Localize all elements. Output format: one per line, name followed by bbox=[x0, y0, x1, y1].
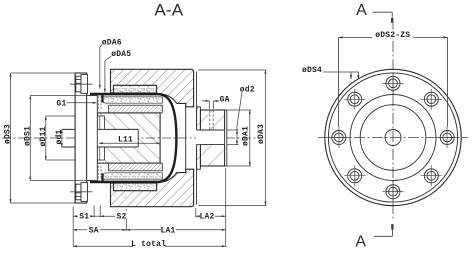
svg-text:øDS4: øDS4 bbox=[302, 66, 322, 75]
svg-text:A: A bbox=[355, 233, 366, 250]
svg-text:øDA5: øDA5 bbox=[111, 50, 131, 59]
svg-text:øDA3: øDA3 bbox=[257, 124, 266, 144]
svg-text:L total: L total bbox=[131, 240, 166, 249]
svg-text:øDS1: øDS1 bbox=[24, 126, 33, 146]
svg-text:øDS2-ZS: øDS2-ZS bbox=[375, 31, 410, 40]
svg-text:øDA1: øDA1 bbox=[242, 126, 251, 146]
svg-text:SA: SA bbox=[89, 226, 99, 235]
svg-text:øD11: øD11 bbox=[39, 126, 48, 146]
svg-text:S2: S2 bbox=[116, 213, 126, 222]
svg-text:G1: G1 bbox=[57, 100, 67, 109]
svg-text:LA2: LA2 bbox=[199, 213, 214, 222]
svg-text:GA: GA bbox=[220, 95, 230, 104]
svg-text:ød2: ød2 bbox=[240, 85, 255, 94]
svg-text:øDS3: øDS3 bbox=[4, 124, 13, 144]
svg-text:A: A bbox=[356, 2, 367, 19]
svg-text:LA1: LA1 bbox=[160, 226, 175, 235]
svg-text:L11: L11 bbox=[118, 136, 133, 145]
svg-text:A-A: A-A bbox=[154, 1, 183, 20]
svg-text:øDA6: øDA6 bbox=[102, 38, 122, 47]
svg-text:S1: S1 bbox=[79, 213, 89, 222]
svg-text:ød1: ød1 bbox=[55, 129, 64, 144]
